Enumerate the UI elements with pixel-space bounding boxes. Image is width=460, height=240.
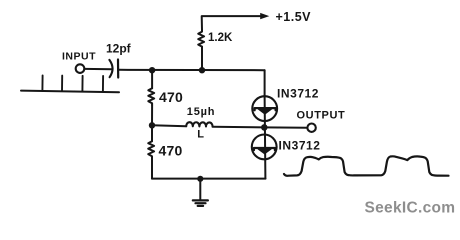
wire R3 to bottom rail <box>151 158 153 179</box>
tunnel diode D1 anode triangle <box>258 109 271 114</box>
input pulse spike 2 <box>61 76 63 92</box>
junction node C (between diodes) <box>261 124 268 131</box>
junction node B (mid-left) <box>149 122 155 128</box>
label 15uh <box>187 106 216 118</box>
wire mid rail node B to inductor <box>152 124 186 127</box>
resistor R3 470 (lower) <box>148 141 154 158</box>
svg-text:IN3712: IN3712 <box>277 87 319 101</box>
svg-text:IN3712: IN3712 <box>279 139 321 153</box>
svg-text:OUTPUT: OUTPUT <box>297 109 346 121</box>
tunnel diode D1 cathode bracket <box>255 108 276 110</box>
label OUTPUT <box>297 109 346 121</box>
ground stem <box>199 179 201 200</box>
resistor R2 470 (upper) <box>148 88 154 105</box>
resistor R1 1.2K <box>198 30 204 47</box>
wire node A down to resistor R2 <box>151 70 153 88</box>
capacitor C1 12pf straight plate <box>117 60 119 78</box>
wire capacitor to node A bus <box>118 69 264 71</box>
input pulse spike 4 <box>102 76 104 92</box>
svg-text:1.2K: 1.2K <box>208 32 233 44</box>
inductor L 15uh <box>186 122 212 126</box>
svg-text:INPUT: INPUT <box>62 51 96 63</box>
ground symbol bars <box>193 200 208 206</box>
wire inductor to node C <box>213 126 265 129</box>
svg-text:+1.5V: +1.5V <box>276 10 312 24</box>
wire through diodes down to bottom rail <box>264 95 267 178</box>
wire node B down to resistor R3 <box>151 125 153 141</box>
wire node C to output terminal <box>264 126 307 128</box>
tunnel diode D2 1N3712 circle <box>252 135 277 160</box>
tunnel diode D2 cathode bracket <box>254 148 275 150</box>
svg-text:15µh: 15µh <box>187 106 216 118</box>
label L <box>197 129 204 141</box>
label 470 upper <box>159 89 183 105</box>
OUTPUT terminal <box>307 124 315 132</box>
input pulse spike 3 <box>81 76 83 92</box>
wire R1 to +1.5V arrow <box>202 16 261 30</box>
watermark SeekIC.com <box>365 200 456 217</box>
+1.5V supply arrowhead <box>260 13 269 19</box>
svg-text:12pf: 12pf <box>106 42 132 56</box>
input pulse spike 1 <box>41 76 43 91</box>
tunnel diode D1 1N3712 circle <box>252 96 277 121</box>
label INPUT <box>62 51 96 63</box>
label +1.5V <box>276 10 312 24</box>
wire node A to resistor R1 <box>201 47 203 71</box>
svg-text:SeekIC.com: SeekIC.com <box>365 200 456 217</box>
label IN3712 lower <box>279 139 321 153</box>
bottom ground rail wire <box>152 178 265 180</box>
label 470 lower <box>159 142 183 158</box>
label 12pf <box>106 42 132 56</box>
wire input terminal to capacitor <box>85 68 113 70</box>
wire R2 to node B <box>151 105 153 125</box>
label 1.2K <box>208 32 233 44</box>
svg-text:470: 470 <box>159 89 183 105</box>
output waveform <box>284 156 449 175</box>
input pulse train baseline <box>21 91 119 93</box>
INPUT terminal <box>76 64 85 73</box>
label IN3712 upper <box>277 87 319 101</box>
capacitor C1 12pf curved plate <box>109 60 112 77</box>
svg-text:470: 470 <box>159 142 183 158</box>
wire node A corner down to diode D1 <box>264 70 266 95</box>
junction node A2 (R1 bottom) <box>199 67 205 73</box>
svg-text:L: L <box>197 129 204 141</box>
junction node A1 (cap/R2) <box>149 67 155 73</box>
tunnel diode D2 anode triangle <box>258 149 271 154</box>
junction ground node <box>197 176 203 182</box>
